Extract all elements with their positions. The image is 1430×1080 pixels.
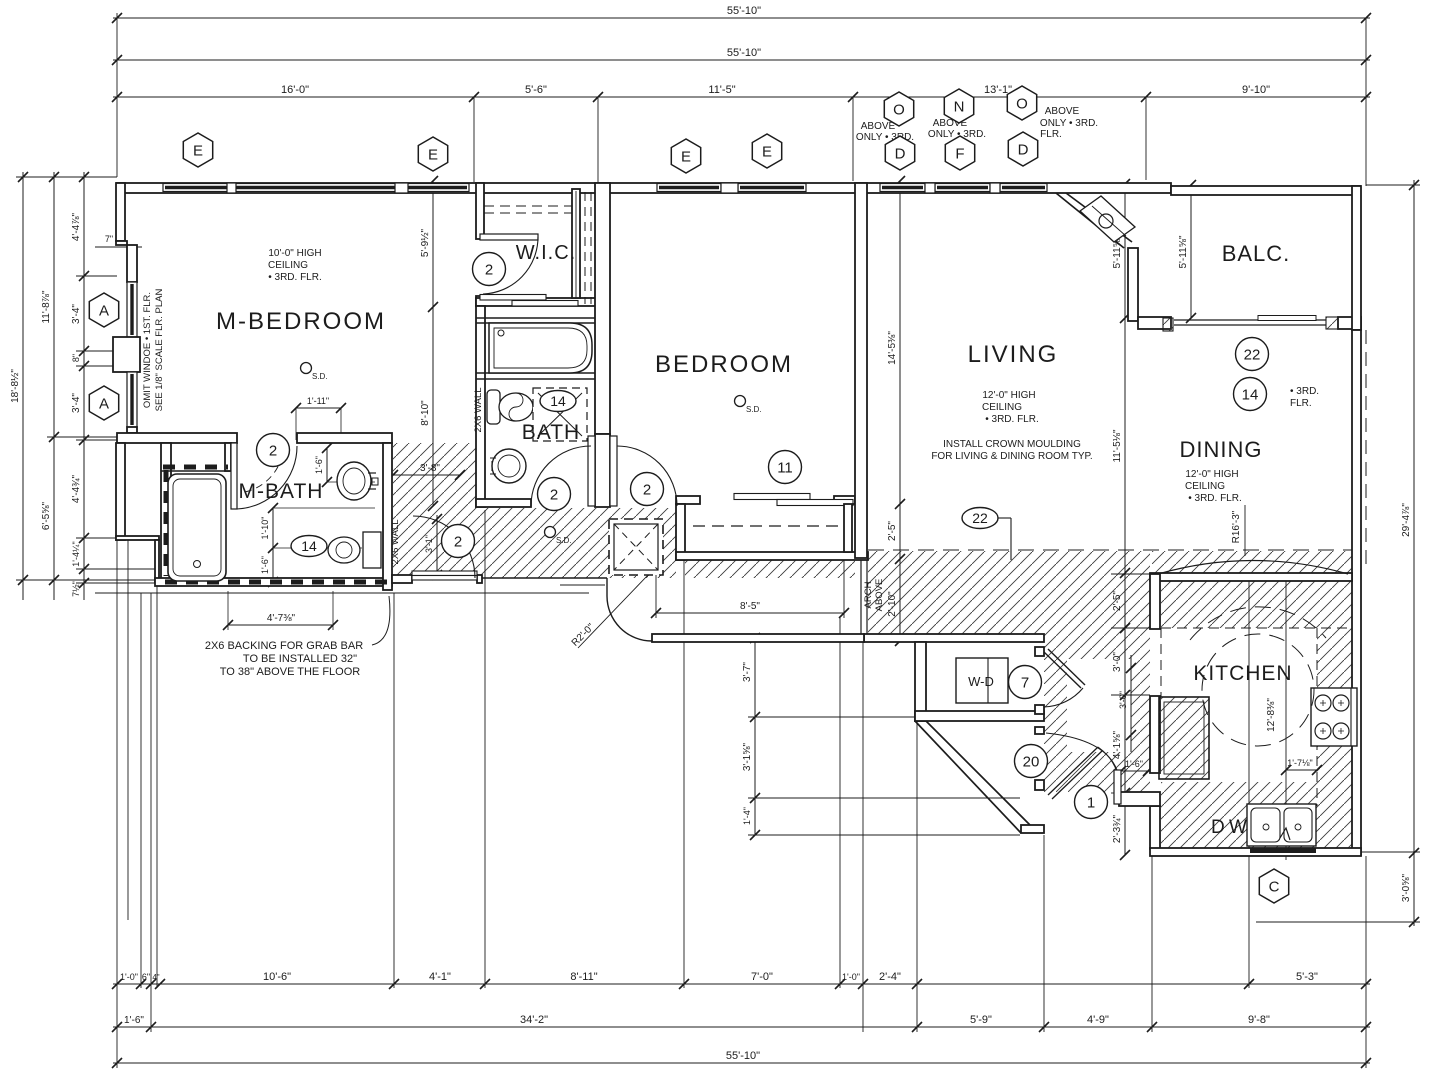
- svg-text:12'-0" HIGH: 12'-0" HIGH: [982, 390, 1035, 401]
- dimension line right chain: [1409, 180, 1419, 927]
- svg-text:S.D.: S.D.: [556, 536, 572, 545]
- door bath (2): [588, 436, 595, 506]
- window left wall 1: [127, 282, 137, 337]
- marker hexagon E: [183, 133, 212, 167]
- window mullions top wall: [227, 183, 236, 193]
- toilet m-bath: [363, 532, 381, 568]
- svg-text:ONLY • 3RD.: ONLY • 3RD.: [1040, 118, 1098, 129]
- svg-text:11'-5": 11'-5": [708, 84, 735, 96]
- svg-text:9'-10": 9'-10": [1242, 84, 1270, 96]
- svg-text:1'-7⅛": 1'-7⅛": [1287, 758, 1312, 768]
- dimension line 4'-7 3/8 grab bar: [223, 620, 338, 630]
- svg-text:9'-8": 9'-8": [1248, 1014, 1270, 1026]
- svg-text:O: O: [893, 101, 905, 118]
- wall left wall seg: [127, 245, 137, 282]
- svg-text:• 3RD.: • 3RD.: [1290, 386, 1319, 397]
- bifold doors closet 20: [1048, 747, 1098, 795]
- svg-text:M-BEDROOM: M-BEDROOM: [216, 308, 386, 335]
- hatched strip above kitchen (dining side): [1152, 551, 1352, 573]
- svg-text:SEE 1/8" SCALE FLR. PLAN: SEE 1/8" SCALE FLR. PLAN: [154, 289, 165, 412]
- smoke detector: [735, 396, 746, 407]
- keynote circle 11: [769, 451, 802, 484]
- extension lines bottom: [116, 540, 118, 1068]
- svg-text:20: 20: [1023, 753, 1040, 770]
- wall left wall seg2: [127, 427, 137, 433]
- svg-text:14'-5⅜": 14'-5⅜": [887, 331, 898, 365]
- svg-text:10'-0" HIGH: 10'-0" HIGH: [268, 248, 321, 259]
- svg-text:ARCH: ARCH: [863, 581, 874, 608]
- wall left exterior lower: [116, 443, 125, 540]
- svg-text:3'-0⅝": 3'-0⅝": [1401, 873, 1412, 902]
- dimension line wd closet chain: [750, 633, 760, 840]
- svg-text:INSTALL CROWN MOULDING: INSTALL CROWN MOULDING: [943, 439, 1081, 450]
- wall top exterior: [117, 183, 1171, 193]
- wall bedroom west pier: [595, 434, 610, 507]
- keynote circle 7: [1009, 666, 1042, 699]
- svg-text:2X6 WALL: 2X6 WALL: [390, 519, 401, 564]
- svg-text:2: 2: [269, 442, 277, 459]
- wall left exterior upper: [116, 183, 125, 241]
- wall kitchen north: [1150, 573, 1352, 581]
- svg-text:S.D.: S.D.: [746, 405, 762, 414]
- svg-text:55'-10": 55'-10": [727, 5, 761, 17]
- svg-text:FLR.: FLR.: [1290, 398, 1312, 409]
- svg-text:1'-4": 1'-4": [742, 807, 752, 825]
- svg-text:3'-4": 3'-4": [71, 304, 82, 324]
- svg-text:14: 14: [301, 538, 317, 554]
- keynote circle 2: [473, 253, 506, 286]
- svg-text:22: 22: [972, 510, 988, 526]
- svg-text:2'-5": 2'-5": [887, 521, 898, 541]
- svg-text:A: A: [99, 302, 109, 319]
- svg-text:W: W: [1229, 817, 1247, 838]
- dimension line wic/bath chain: [428, 176, 438, 511]
- wall bath west: [476, 306, 485, 507]
- svg-text:3'-1": 3'-1": [424, 535, 434, 553]
- svg-text:8": 8": [71, 354, 81, 362]
- dimension line living chain: [895, 176, 905, 646]
- svg-text:E: E: [193, 142, 203, 159]
- svg-text:12'-8⅜": 12'-8⅜": [1266, 698, 1277, 732]
- kitchen stove: [1311, 688, 1357, 746]
- svg-text:5'-9": 5'-9": [970, 1014, 992, 1026]
- extension lines left: [16, 176, 117, 178]
- kitchen island counter: [1159, 697, 1209, 779]
- dimension line sink 1'-6: [322, 443, 332, 487]
- svg-text:7½": 7½": [71, 581, 81, 597]
- door W-D (7): [1044, 652, 1081, 688]
- dimension line 1'-11 door offset: [291, 403, 346, 413]
- dimension line 8'-5 hall: [651, 608, 849, 618]
- svg-text:3'-0": 3'-0": [1118, 691, 1128, 709]
- bathtub bath: [489, 323, 592, 373]
- svg-text:4'-4¾": 4'-4¾": [71, 474, 82, 503]
- wall closet20 jamb n: [1035, 727, 1044, 734]
- wall tub nook divider: [225, 443, 231, 471]
- svg-text:ABOVE: ABOVE: [861, 121, 896, 132]
- wall right exterior: [1352, 330, 1361, 855]
- marker hexagon E: [752, 134, 781, 168]
- dimension line entry 1'-6: [1116, 766, 1153, 776]
- dimension line left chain 2: [49, 172, 59, 600]
- marker hexagon C: [1259, 869, 1288, 903]
- svg-text:D: D: [895, 145, 906, 162]
- wall sw notch vertical: [155, 540, 159, 582]
- svg-text:2'-4": 2'-4": [879, 971, 901, 983]
- hatched kitchen top counter band: [1161, 581, 1352, 628]
- svg-text:5'-9½": 5'-9½": [420, 228, 431, 257]
- svg-text:14: 14: [550, 393, 566, 409]
- svg-text:11: 11: [777, 459, 793, 476]
- dimension line left 18'-8 1/2: [18, 172, 28, 600]
- svg-text:34'-2": 34'-2": [520, 1014, 548, 1026]
- wic shelf dashed: [484, 205, 572, 207]
- svg-text:4'-1⅝": 4'-1⅝": [1112, 730, 1123, 759]
- dimension line bottom segments: [112, 979, 1371, 989]
- svg-text:CEILING: CEILING: [1185, 481, 1225, 492]
- svg-text:4'-9": 4'-9": [1087, 1014, 1109, 1026]
- svg-text:• 3RD. FLR.: • 3RD. FLR.: [985, 414, 1039, 425]
- dimension line 3'-8 hall width: [388, 470, 465, 480]
- sink bath: [492, 449, 526, 483]
- wall m-bath south: [155, 578, 392, 586]
- 7 inch jog dimension: [95, 246, 142, 248]
- wall m-bedroom south e: [297, 433, 392, 443]
- hall skylight dashed square: [609, 519, 663, 575]
- dimension line balcony chain: [1186, 180, 1196, 323]
- wall balcony south w: [1138, 317, 1171, 329]
- wall balcony south e: [1338, 317, 1361, 329]
- keynote circle 2: [631, 473, 664, 506]
- svg-text:BEDROOM: BEDROOM: [655, 351, 793, 378]
- svg-text:1'-6": 1'-6": [314, 456, 324, 474]
- svg-text:E: E: [681, 148, 691, 165]
- dimension line bottom 34'-2" row: [112, 1022, 1371, 1032]
- svg-text:8'-11": 8'-11": [570, 971, 597, 983]
- svg-text:ABOVE: ABOVE: [874, 579, 885, 612]
- svg-text:8'-5": 8'-5": [740, 601, 760, 612]
- wall hall south e jamb: [477, 575, 482, 583]
- keynote circle 14: [1234, 378, 1267, 411]
- entry door (1): [1114, 770, 1121, 804]
- wall closet east: [844, 504, 852, 552]
- marker hexagon E: [418, 137, 447, 171]
- svg-text:7: 7: [1021, 674, 1029, 691]
- window band bedroom top: [657, 184, 721, 192]
- wall closet south: [676, 552, 868, 560]
- svg-text:5'-11⅝": 5'-11⅝": [1178, 235, 1189, 269]
- shower bath (dashed): [533, 388, 587, 441]
- svg-text:ABOVE: ABOVE: [1045, 106, 1080, 117]
- hatched hall floor south of baths: [476, 508, 676, 578]
- svg-text:1: 1: [1087, 794, 1095, 811]
- hatched hall floor strip below bedroom closet: [685, 558, 855, 578]
- svg-text:5'-6": 5'-6": [525, 84, 547, 96]
- keynote circle 1: [1075, 786, 1108, 819]
- wall living west: [855, 183, 867, 558]
- wall m-bedroom south w: [117, 433, 237, 443]
- dimension line entry 3'-0: [1126, 655, 1136, 752]
- svg-text:3'-1⅝": 3'-1⅝": [742, 742, 753, 771]
- svg-text:1'-10": 1'-10": [260, 517, 270, 540]
- balcony railing / slider: [1174, 319, 1326, 321]
- hatched hall floor west corridor: [393, 443, 476, 578]
- wic bypass doors: [480, 295, 546, 301]
- svg-text:OMIT WINDOE • 1ST. FLR.: OMIT WINDOE • 1ST. FLR.: [142, 292, 153, 408]
- dimension line kitchen 1'-7 1/8: [1281, 765, 1322, 775]
- svg-text:5'-3": 5'-3": [1296, 971, 1318, 983]
- svg-text:KITCHEN: KITCHEN: [1193, 662, 1292, 685]
- svg-text:1'-4¼": 1'-4¼": [71, 541, 81, 566]
- wall kitchen south: [1150, 848, 1361, 856]
- svg-text:1'-6": 1'-6": [260, 556, 270, 574]
- svg-text:6'-5⅝": 6'-5⅝": [41, 501, 52, 530]
- svg-text:TO 38" ABOVE THE FLOOR: TO 38" ABOVE THE FLOOR: [220, 666, 360, 678]
- svg-text:10'-6": 10'-6": [263, 971, 291, 983]
- hatched hall/landing east: [868, 551, 1150, 634]
- window band living top: [880, 184, 925, 192]
- arch jamb below living wall: [860, 560, 862, 634]
- wall m-bath west (2x6 grab): [161, 443, 171, 583]
- svg-text:W.I.C.: W.I.C.: [516, 242, 576, 264]
- svg-text:W-D: W-D: [968, 674, 994, 689]
- svg-text:4": 4": [152, 973, 159, 982]
- wall bedroom south w: [676, 496, 700, 504]
- svg-text:2'-10": 2'-10": [887, 591, 898, 617]
- svg-text:2X6 BACKING FOR GRAB BAR: 2X6 BACKING FOR GRAB BAR: [205, 640, 363, 652]
- closet rod dashed: [693, 525, 844, 527]
- kitchen eating dashed circle: [1202, 634, 1314, 746]
- svg-text:7": 7": [105, 234, 113, 244]
- dimension line bottom overall: [112, 1058, 1371, 1068]
- door hall-lower (2): [412, 571, 477, 576]
- svg-text:CEILING: CEILING: [982, 402, 1022, 413]
- hatched kitchen bottom counter band: [1161, 782, 1317, 848]
- svg-text:2: 2: [485, 261, 493, 278]
- door bedroom (2): [610, 436, 617, 506]
- door WIC (2): [480, 234, 538, 240]
- wall kitchen west pier: [1150, 574, 1160, 629]
- svg-text:2'-5": 2'-5": [1112, 591, 1123, 611]
- svg-text:4'-4⅞": 4'-4⅞": [71, 212, 82, 241]
- svg-text:1'-0": 1'-0": [120, 972, 138, 982]
- svg-text:A: A: [99, 395, 109, 412]
- extension lines top: [116, 13, 118, 177]
- wall foyer north wall: [652, 634, 864, 642]
- marker hexagon O: [1007, 86, 1036, 120]
- R16-3 radius note: [1244, 505, 1246, 556]
- svg-text:3'-0": 3'-0": [1112, 652, 1123, 672]
- wall closet20 jamb s: [1035, 780, 1044, 790]
- svg-text:3'-8": 3'-8": [420, 463, 440, 474]
- sink m-bath: [337, 462, 371, 500]
- door m-bath (2): [231, 443, 237, 509]
- svg-text:7'-0": 7'-0": [751, 971, 773, 983]
- wall balcony top: [1171, 186, 1360, 195]
- marker hexagon N: [944, 89, 973, 123]
- svg-text:BATH: BATH: [522, 421, 580, 444]
- wall chimney east wall: [1128, 248, 1138, 321]
- svg-text:• 3RD. FLR.: • 3RD. FLR.: [268, 272, 322, 283]
- wall wic west stub: [476, 296, 484, 306]
- svg-text:N: N: [954, 98, 965, 115]
- wall kitchen west mid: [1150, 696, 1160, 773]
- svg-text:2X6 WALL: 2X6 WALL: [473, 387, 484, 432]
- svg-text:14: 14: [1242, 386, 1259, 403]
- dimension line toilet dims: [268, 503, 278, 587]
- svg-text:3'-7": 3'-7": [742, 662, 753, 682]
- svg-text:D: D: [1018, 141, 1029, 158]
- bedroom closet bypass doors: [734, 494, 810, 500]
- keynote circle 2: [442, 525, 475, 558]
- svg-text:2: 2: [550, 486, 558, 503]
- wall wd jamb s: [1035, 705, 1044, 714]
- wall m-bath east: [383, 443, 392, 590]
- keynote circle 22: [1236, 338, 1269, 371]
- svg-text:1'-0": 1'-0": [842, 972, 860, 982]
- wall wic south: [476, 298, 598, 306]
- keynote oval 14: [291, 536, 327, 557]
- svg-text:F: F: [955, 145, 964, 162]
- svg-text:FLR.: FLR.: [1040, 129, 1062, 140]
- svg-text:BALC.: BALC.: [1222, 241, 1291, 266]
- svg-text:8'-10": 8'-10": [420, 400, 431, 426]
- svg-text:4'-7⅜": 4'-7⅜": [267, 613, 296, 624]
- foyer diagonal wall: [915, 721, 1021, 833]
- svg-text:4'-1": 4'-1": [429, 971, 451, 983]
- dimension line overall 55'-10" (2nd): [112, 55, 1371, 65]
- svg-text:11'-8⅞": 11'-8⅞": [41, 290, 52, 324]
- kitchen sink double: [1247, 804, 1316, 846]
- marker hexagon D: [1008, 132, 1037, 166]
- dimension line left chain 3: [79, 172, 89, 600]
- wall wic east: [572, 189, 580, 298]
- svg-text:2: 2: [643, 481, 651, 498]
- marker hexagon A: [89, 386, 118, 420]
- wall left pier bump: [113, 337, 140, 372]
- marker hexagon D: [885, 136, 914, 170]
- hatched foyer east strip: [1044, 634, 1150, 792]
- svg-text:18'-8½": 18'-8½": [10, 369, 21, 403]
- marker hexagon A: [89, 293, 118, 327]
- wall entry south jamb: [1119, 792, 1160, 806]
- dimension line top segments: [112, 92, 1371, 102]
- keynote circle 2: [538, 478, 571, 511]
- svg-text:11'-5⅛": 11'-5⅛": [1112, 429, 1123, 463]
- svg-text:LIVING: LIVING: [968, 341, 1059, 368]
- dimension line overall 55'-10" (1st): [112, 13, 1371, 23]
- window band m-bedroom top: [163, 184, 231, 192]
- wall balcony east: [1352, 186, 1361, 330]
- svg-text:29'-4⅞": 29'-4⅞": [1401, 503, 1412, 537]
- svg-text:6": 6": [142, 972, 150, 982]
- keynote oval 22: [962, 508, 998, 529]
- svg-text:1'-6": 1'-6": [1125, 759, 1143, 769]
- svg-text:FOR LIVING & DINING ROOM TYP.: FOR LIVING & DINING ROOM TYP.: [931, 451, 1092, 462]
- hatched kitchen right counter band: [1317, 628, 1352, 848]
- bathtub m-bath: [168, 474, 226, 581]
- wall wd south: [915, 711, 1044, 721]
- keynote oval 14: [540, 391, 576, 412]
- wall foyer south stub: [1021, 825, 1044, 833]
- svg-text:E: E: [428, 146, 438, 163]
- dashed hall boundary: [868, 549, 1352, 551]
- wall hall south / wd north: [864, 634, 1044, 642]
- wall wd west: [915, 642, 926, 721]
- dimension line 3'-1 hall: [432, 514, 442, 580]
- extension lines interior: [748, 716, 915, 718]
- washer dryer: [956, 658, 1008, 703]
- wall left jog: [116, 241, 127, 245]
- svg-text:12'-0" HIGH: 12'-0" HIGH: [1185, 469, 1238, 480]
- svg-text:C: C: [1269, 878, 1280, 895]
- marker hexagon O: [884, 92, 913, 126]
- wall wd jamb n: [1035, 647, 1044, 656]
- toilet bath: [487, 390, 500, 424]
- svg-text:S.D.: S.D.: [312, 372, 328, 381]
- dimension line living/kitchen long chain: [1120, 179, 1130, 860]
- smoke detector: [301, 363, 312, 374]
- kitchen arch curve: [1158, 561, 1348, 575]
- keynote circle 20: [1015, 745, 1048, 778]
- svg-text:O: O: [1016, 95, 1028, 112]
- marker hexagon E: [671, 139, 700, 173]
- svg-text:TO BE INSTALLED 32": TO BE INSTALLED 32": [243, 653, 357, 665]
- wall kitchen west low: [1150, 806, 1160, 849]
- svg-text:1'-6": 1'-6": [124, 1015, 144, 1026]
- wall wic west upper: [476, 183, 484, 239]
- wall bedroom south e: [834, 496, 855, 504]
- svg-text:55'-10": 55'-10": [726, 1050, 760, 1062]
- keynote circle 2: [257, 434, 290, 467]
- svg-text:D: D: [1211, 817, 1225, 838]
- svg-text:3'-4": 3'-4": [71, 393, 82, 413]
- R2-0 radius note: [578, 575, 648, 648]
- svg-text:2: 2: [454, 533, 462, 550]
- svg-text:22: 22: [1244, 346, 1261, 363]
- wall bath south: [476, 499, 531, 507]
- svg-text:R16'-3": R16'-3": [1231, 510, 1242, 543]
- svg-text:CEILING: CEILING: [268, 260, 308, 271]
- wall hall south w jamb: [392, 575, 412, 583]
- chimney diagonal wall: [1056, 193, 1124, 248]
- svg-text:55'-10": 55'-10": [727, 47, 761, 59]
- smoke detector: [545, 527, 556, 538]
- svg-text:E: E: [762, 143, 772, 160]
- svg-text:1'-11": 1'-11": [307, 396, 329, 406]
- chimney flue box: [1080, 196, 1135, 242]
- svg-text:DINING: DINING: [1180, 437, 1263, 462]
- wall closet west: [676, 504, 685, 560]
- svg-text:M-BATH: M-BATH: [239, 480, 324, 503]
- svg-text:16'-0": 16'-0": [281, 84, 309, 96]
- 2x6 grab bar backing dashes: [163, 465, 228, 470]
- svg-text:2'-3¾": 2'-3¾": [1112, 814, 1123, 843]
- window left wall 2: [127, 372, 137, 427]
- wall sw notch horizontal: [116, 536, 159, 540]
- wall bedroom west: [595, 183, 610, 434]
- marker hexagon F: [945, 136, 974, 170]
- svg-text:• 3RD. FLR.: • 3RD. FLR.: [1188, 493, 1242, 504]
